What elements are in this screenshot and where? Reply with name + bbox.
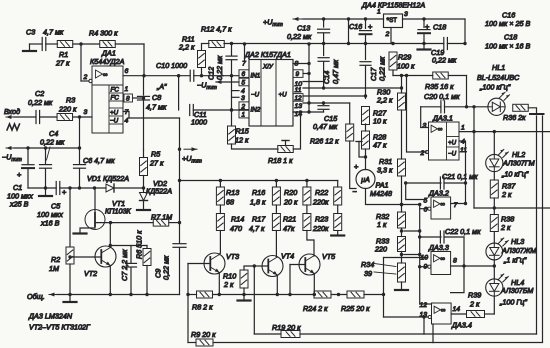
svg-text:X/У: X/У (262, 64, 274, 71)
wire (pin9 stub) (303, 73, 309, 75)
capacitor C12 (207, 44, 238, 80)
capacitor C22 (420, 227, 481, 243)
resistor R2 (49, 188, 74, 296)
svg-text:∞: ∞ (103, 72, 108, 79)
op-amp DA3.2 (420, 189, 458, 220)
svg-text:R2: R2 (51, 255, 60, 264)
resistor R13 (216, 181, 239, 207)
svg-text:С18: С18 (504, 33, 517, 42)
wire (pin2 link) (407, 76, 427, 153)
op-amp DA1 (90, 49, 133, 134)
svg-text:1,8 к: 1,8 к (250, 198, 266, 207)
svg-text:6: 6 (125, 68, 129, 75)
svg-text:С10 1000: С10 1000 (156, 61, 187, 70)
wire (73, 109, 92, 119)
wire (448, 76, 466, 107)
resistor R6 (135, 230, 152, 296)
ground (C18) (418, 44, 431, 50)
wire (194, 74, 239, 77)
meter PA1 (353, 157, 392, 198)
svg-text:0,22 мк: 0,22 мк (162, 255, 171, 280)
resistor R18 (trimmer) (268, 141, 293, 166)
svg-text:27 к: 27 к (55, 59, 70, 68)
node +Uпит (left) (129, 118, 202, 243)
wire (R3 down) (78, 117, 81, 150)
svg-text:4: 4 (125, 118, 129, 125)
resistor R11 (178, 35, 206, 76)
svg-text:2: 2 (83, 74, 88, 81)
wire (R21 to VT5) (307, 231, 314, 257)
capacitor C1 (7, 148, 34, 209)
svg-text:2,2 к: 2,2 к (178, 43, 195, 52)
svg-text:+: + (17, 170, 22, 179)
resistor R9 (191, 330, 216, 346)
svg-text:R15: R15 (236, 127, 250, 136)
svg-text:2,2 к: 2,2 к (376, 96, 393, 105)
wire (row 208) (474, 207, 550, 209)
wire (VT4 base) (254, 265, 268, 267)
svg-text:С7 2,2 мк: С7 2,2 мк (120, 249, 129, 281)
svg-text:R26 12 к: R26 12 к (310, 137, 339, 146)
svg-text:3: 3 (241, 95, 245, 102)
svg-text:BL-L524UBC: BL-L524UBC (477, 73, 520, 82)
capacitor C6 (74, 148, 116, 188)
svg-text:68: 68 (226, 198, 234, 207)
svg-text:VD1 КД522А: VD1 КД522А (87, 174, 129, 183)
op-amp DA3.4 (420, 302, 472, 330)
svg-text:+: + (354, 162, 359, 171)
svg-text:ДА4 КР1158ЕН12А: ДА4 КР1158ЕН12А (361, 1, 425, 10)
text ДА3 LM324N (28, 312, 73, 321)
capacitor C7 (120, 246, 137, 297)
svg-text:14: 14 (453, 306, 461, 313)
svg-text:R25 20 к: R25 20 к (341, 304, 370, 313)
LED HL2 (486, 132, 535, 179)
resistor R34 (361, 260, 406, 282)
text C18 value (485, 33, 530, 51)
resistor R17 (249, 205, 280, 257)
wire (400, 252, 422, 264)
resistor R21 (283, 205, 311, 233)
svg-text:−U: −U (448, 151, 457, 158)
resistor R8 (192, 291, 213, 312)
svg-text:R36 2к: R36 2к (503, 113, 526, 122)
wire (73, 42, 99, 45)
svg-text:ДА3.4: ДА3.4 (451, 321, 472, 330)
svg-text:R22: R22 (315, 188, 328, 197)
wire (R28 wiper) (356, 142, 366, 158)
svg-text:Общ.: Общ. (27, 292, 45, 301)
resistor R12 (201, 25, 232, 48)
node A / capacitor C8 (138, 76, 168, 150)
transistor VT3 (204, 252, 239, 274)
svg-text:4,7 мк: 4,7 мк (43, 28, 64, 37)
wire (VT5 emitter) (313, 274, 316, 297)
svg-text:*ST: *ST (387, 18, 398, 25)
wire (pin4 stub) (459, 141, 467, 204)
svg-text:μА: μА (360, 177, 370, 184)
svg-text:7: 7 (125, 109, 129, 116)
svg-text:2 к: 2 к (469, 300, 480, 309)
svg-text:ДА3.3: ДА3.3 (428, 243, 449, 252)
svg-text:С20 0,1 мк: С20 0,1 мк (424, 92, 460, 101)
svg-text:12: 12 (295, 95, 303, 102)
capacitor C15 (313, 103, 338, 131)
svg-text:R34: R34 (361, 260, 374, 269)
resistor R5 (140, 150, 164, 189)
wire (pin1 row) (459, 130, 550, 133)
LED HL4 (486, 266, 534, 307)
LED HL1 (477, 63, 520, 115)
wire (pin14 / C15 bottom) (293, 110, 324, 113)
resistor R15 (228, 126, 250, 145)
vertical (HL1 node down) (473, 107, 475, 208)
text C16 value (485, 11, 530, 29)
capacitor C18 (418, 19, 446, 44)
svg-text:ДА3 LM324N: ДА3 LM324N (28, 312, 73, 321)
rail +Uпит (top) (263, 17, 384, 28)
svg-text:220к: 220к (312, 198, 329, 207)
rail (regulated) (202, 19, 467, 45)
wire (pin11 row) (303, 86, 403, 89)
svg-text:IN2: IN2 (251, 107, 261, 114)
svg-text:1: 1 (461, 125, 465, 132)
svg-text:„10 кГц": „10 кГц" (501, 170, 529, 179)
svg-text:R13: R13 (226, 188, 239, 197)
wire (R19 row) (254, 333, 281, 335)
svg-text:R39: R39 (468, 291, 481, 300)
svg-text:R5: R5 (151, 150, 161, 159)
wire (331, 293, 347, 296)
text VT2-VT5 (29, 323, 91, 332)
svg-text:1: 1 (377, 9, 381, 16)
resistor R39 (467, 291, 485, 318)
wire (pins 3,4 tie) (230, 76, 239, 126)
resistor R20 (283, 181, 311, 207)
ground (Общ) (64, 295, 77, 303)
frame (right) (537, 116, 543, 342)
svg-text:R23: R23 (315, 215, 328, 224)
svg-text:R24 2 к: R24 2 к (303, 304, 328, 313)
svg-text:R16: R16 (252, 188, 265, 197)
wire (VT4 coll) (275, 256, 278, 259)
resistor R10 (223, 264, 256, 300)
wire (VT3 base down) (187, 264, 189, 343)
svg-text:КП103К: КП103К (105, 207, 131, 216)
wire (pin8 stub) (133, 96, 146, 99)
svg-text:470: 470 (230, 224, 242, 233)
capacitor C14 (318, 44, 340, 89)
svg-text:3: 3 (84, 109, 88, 116)
wire (400, 228, 422, 237)
svg-text:12 к: 12 к (235, 136, 249, 145)
wire (213, 294, 314, 296)
wire (300, 317, 424, 334)
resistor R22 (312, 181, 342, 207)
svg-text:R20: R20 (284, 188, 297, 197)
svg-text:2 к: 2 к (500, 223, 511, 232)
svg-text:20 к: 20 к (283, 198, 298, 207)
wire (DA1 pin7 stub) (123, 112, 129, 119)
resistor R3 (57, 96, 77, 121)
svg-text:КД522А: КД522А (146, 187, 172, 196)
resistor R38 (490, 208, 514, 244)
resistor R35 (425, 72, 454, 91)
wire (pin8 out) (451, 264, 496, 267)
svg-text:ДА2 К157ДА1: ДА2 К157ДА1 (244, 50, 291, 59)
wire (VT2 emitter) (109, 266, 112, 297)
svg-text:4,7 мк: 4,7 мк (146, 103, 167, 112)
wire (pin14 out) (451, 313, 466, 315)
capacitor C21 (404, 172, 478, 200)
op-amp DA3.3 (418, 243, 457, 275)
svg-text:5: 5 (424, 198, 428, 205)
wire (60, 186, 106, 189)
svg-text:1М: 1М (49, 264, 59, 273)
wire (R18 to pin14) (293, 112, 301, 149)
svg-text:R29: R29 (398, 53, 411, 62)
svg-text:VT5: VT5 (322, 252, 336, 261)
wire (DA4 out) (403, 17, 466, 20)
svg-text:С14: С14 (322, 71, 331, 84)
wire (R9 row) (188, 342, 196, 344)
wire (VT3 base) (188, 263, 210, 265)
wire (46, 43, 58, 45)
svg-text:∞: ∞ (438, 126, 443, 133)
svg-text:FC: FC (111, 95, 120, 102)
resistor R7 (151, 213, 172, 227)
resistor R23 (312, 205, 344, 236)
resistor R24 (303, 291, 331, 313)
transistor VT5 (299, 252, 336, 275)
resistor R4 (89, 29, 118, 48)
svg-text:R19 20 к: R19 20 к (272, 323, 301, 332)
capacitor C9 (154, 244, 187, 295)
svg-text:+U: +U (110, 110, 119, 117)
resistor R33 (374, 237, 406, 254)
wire (DA4 pin2 down) (390, 28, 392, 44)
svg-text:220 к: 220 к (58, 105, 77, 114)
capacitor C19 (431, 38, 457, 65)
svg-text:1: 1 (242, 112, 246, 119)
svg-text:„100 Гц": „100 Гц" (499, 298, 527, 307)
node Вход (4, 107, 20, 130)
svg-text:R8 2 к: R8 2 к (192, 303, 213, 312)
svg-text:„А": „А" (156, 84, 167, 91)
svg-text:„1 кГц": „1 кГц" (503, 256, 527, 265)
svg-text:−U: −U (251, 92, 260, 99)
wire (213, 324, 433, 343)
svg-text:х16 В: х16 В (40, 219, 60, 228)
rail +U (stages) (178, 179, 338, 182)
svg-text:11: 11 (460, 147, 467, 154)
svg-text:IN1: IN1 (251, 73, 261, 80)
svg-text:4: 4 (461, 139, 465, 146)
svg-text:6: 6 (424, 207, 428, 214)
wire (R36 gnd) (528, 108, 543, 114)
resistor R16 (250, 181, 280, 207)
svg-text:R35 16 к: R35 16 к (425, 82, 454, 91)
svg-text:VT4: VT4 (281, 252, 294, 261)
capacitor C3 (26, 28, 64, 51)
wire (364, 293, 385, 296)
capacitor C17 (360, 44, 387, 97)
diode VD1 (87, 174, 129, 192)
svg-text:27 к: 27 к (149, 159, 164, 168)
wire (40, 116, 57, 118)
wire (VT4 base down) (253, 266, 255, 334)
svg-text:10 к: 10 к (373, 117, 387, 126)
svg-text:2: 2 (420, 150, 425, 157)
capacitor C16 (349, 19, 373, 44)
svg-text:0,22 мк: 0,22 мк (28, 98, 53, 107)
resistor R32 (376, 212, 406, 229)
LED HL3 (486, 237, 536, 266)
svg-text:VT3: VT3 (226, 252, 239, 261)
svg-text:АЛ307ГМ: АЛ307ГМ (502, 159, 535, 168)
svg-text:К544УД2А: К544УД2А (90, 57, 125, 66)
wire (169, 221, 181, 224)
op-amp DA3.1 (420, 114, 468, 161)
svg-text:3: 3 (404, 11, 408, 18)
wire (C7,R6 top) (109, 244, 147, 247)
wire (pin13 row) (303, 101, 350, 104)
wire (lower bus) (28, 186, 56, 189)
svg-text:1000: 1000 (191, 118, 207, 127)
svg-text:М4248: М4248 (370, 189, 392, 198)
svg-text:х25 В: х25 В (9, 200, 29, 209)
svg-text:47 к: 47 к (373, 141, 387, 150)
wire (485, 296, 495, 314)
transistor VT2 (84, 246, 116, 278)
svg-text:8: 8 (126, 96, 130, 103)
transistor VT4 (262, 252, 294, 277)
resistor R36 (503, 104, 528, 122)
wire (vert 383.5) (383, 258, 385, 318)
transistor VT1 (FET) (74, 188, 132, 234)
svg-text:47к: 47к (283, 224, 295, 233)
ground (R34) (395, 282, 408, 290)
svg-text:2: 2 (385, 31, 390, 38)
wire (VT2 collector) (109, 223, 111, 248)
svg-text:5: 5 (242, 80, 246, 87)
svg-text:С8: С8 (152, 93, 161, 102)
svg-text:R6 510 к: R6 510 к (135, 230, 144, 259)
svg-text:R17: R17 (252, 215, 266, 224)
svg-text:С6 4,7 мк: С6 4,7 мк (83, 156, 115, 165)
resistor R28 (362, 124, 387, 159)
svg-text:∞: ∞ (440, 256, 445, 263)
resistor R29 (389, 44, 415, 76)
svg-text:13: 13 (420, 312, 428, 319)
resistor R30 (376, 76, 406, 160)
svg-text:13: 13 (295, 103, 303, 110)
wire (pin10) (303, 81, 324, 83)
svg-text:С16: С16 (349, 22, 362, 31)
IC DA2 К157ДА1 (239, 50, 303, 126)
wire (VT5 base) (288, 265, 305, 297)
svg-text:+: + (425, 22, 430, 31)
svg-text:2: 2 (241, 103, 246, 110)
capacitor C2 (28, 89, 53, 124)
capacitor C10 (156, 61, 194, 81)
svg-text:4,7 к: 4,7 к (249, 224, 265, 233)
svg-text:VT2–VT5 КТ3102Г: VT2–VT5 КТ3102Г (29, 323, 91, 332)
wire (pin12 row) (303, 94, 367, 97)
svg-text:0,22 мк: 0,22 мк (287, 32, 312, 41)
wire (DA3.3 supply) (451, 237, 464, 293)
wire (frame inner) (424, 333, 537, 335)
svg-text:2 к: 2 к (223, 280, 234, 289)
svg-text:−U: −U (110, 118, 119, 125)
svg-text:+U: +U (448, 140, 457, 147)
svg-text:0,22 мк: 0,22 мк (215, 55, 224, 80)
wire (pin8 up) (293, 42, 311, 113)
rail (emitter bus) (186, 293, 196, 296)
capacitor C20 (421, 92, 488, 128)
svg-text:1 к: 1 к (377, 220, 387, 229)
svg-text:R3: R3 (66, 96, 75, 105)
svg-text:3: 3 (423, 123, 427, 130)
wire (VT4 emitter) (276, 275, 279, 296)
resistor R14 (216, 205, 244, 253)
svg-text:0,47 мк: 0,47 мк (331, 59, 340, 84)
svg-text:С18: С18 (433, 23, 446, 32)
wire (VT3 coll) (219, 253, 220, 255)
svg-text:С22 0,1 мк: С22 0,1 мк (445, 227, 481, 236)
capacitor C11 (179, 76, 239, 127)
wire (pin10 row) (384, 257, 428, 259)
svg-text:R7 1М: R7 1М (151, 213, 172, 222)
svg-text:ДА3.1: ДА3.1 (432, 114, 453, 123)
wire (R15 bottom) (232, 144, 279, 149)
svg-text:R9 20 к: R9 20 к (191, 330, 216, 339)
resistor R27 (362, 96, 388, 126)
svg-text:3,3 к: 3,3 к (377, 166, 393, 175)
wire (VT3 emitter) (218, 273, 221, 297)
resistor R37 (490, 172, 516, 210)
svg-text:R4 300 к: R4 300 к (89, 29, 118, 38)
svg-text:HL3: HL3 (511, 237, 524, 246)
svg-text:39: 39 (364, 269, 372, 278)
resistor R31 (377, 157, 406, 176)
svg-text:100 мк × 25 В: 100 мк × 25 В (485, 19, 530, 28)
capacitor C13 (287, 19, 330, 44)
rail Общ (27, 292, 180, 301)
svg-text:1: 1 (125, 86, 129, 93)
svg-text:∞: ∞ (440, 201, 445, 208)
svg-text:FC: FC (111, 87, 120, 94)
diode VD2 (137, 179, 172, 210)
wire (pin13 row) (384, 315, 429, 318)
svg-text:+U: +U (279, 92, 288, 99)
regulator DA4 КР1158ЕН12А (361, 1, 425, 39)
wire (115, 43, 144, 45)
svg-text:HL1: HL1 (492, 63, 505, 72)
svg-text:АЛ307БМ: АЛ307БМ (500, 286, 533, 295)
svg-text:11: 11 (295, 87, 302, 94)
ground (C3 left) (23, 44, 36, 51)
svg-text:R12 4,7 к: R12 4,7 к (201, 25, 232, 34)
svg-text:VT2: VT2 (84, 269, 97, 278)
svg-text:АЛ307ЖМ: АЛ307ЖМ (501, 246, 536, 255)
wire (tap vertical) (418, 205, 421, 305)
svg-text:0,47 мк: 0,47 мк (313, 122, 338, 131)
wire (R35 row) (393, 74, 433, 77)
svg-text:100 мк × 16 В: 100 мк × 16 В (485, 42, 530, 51)
capacitor C4 (39, 129, 65, 196)
wire (meter bottom) (366, 189, 422, 207)
